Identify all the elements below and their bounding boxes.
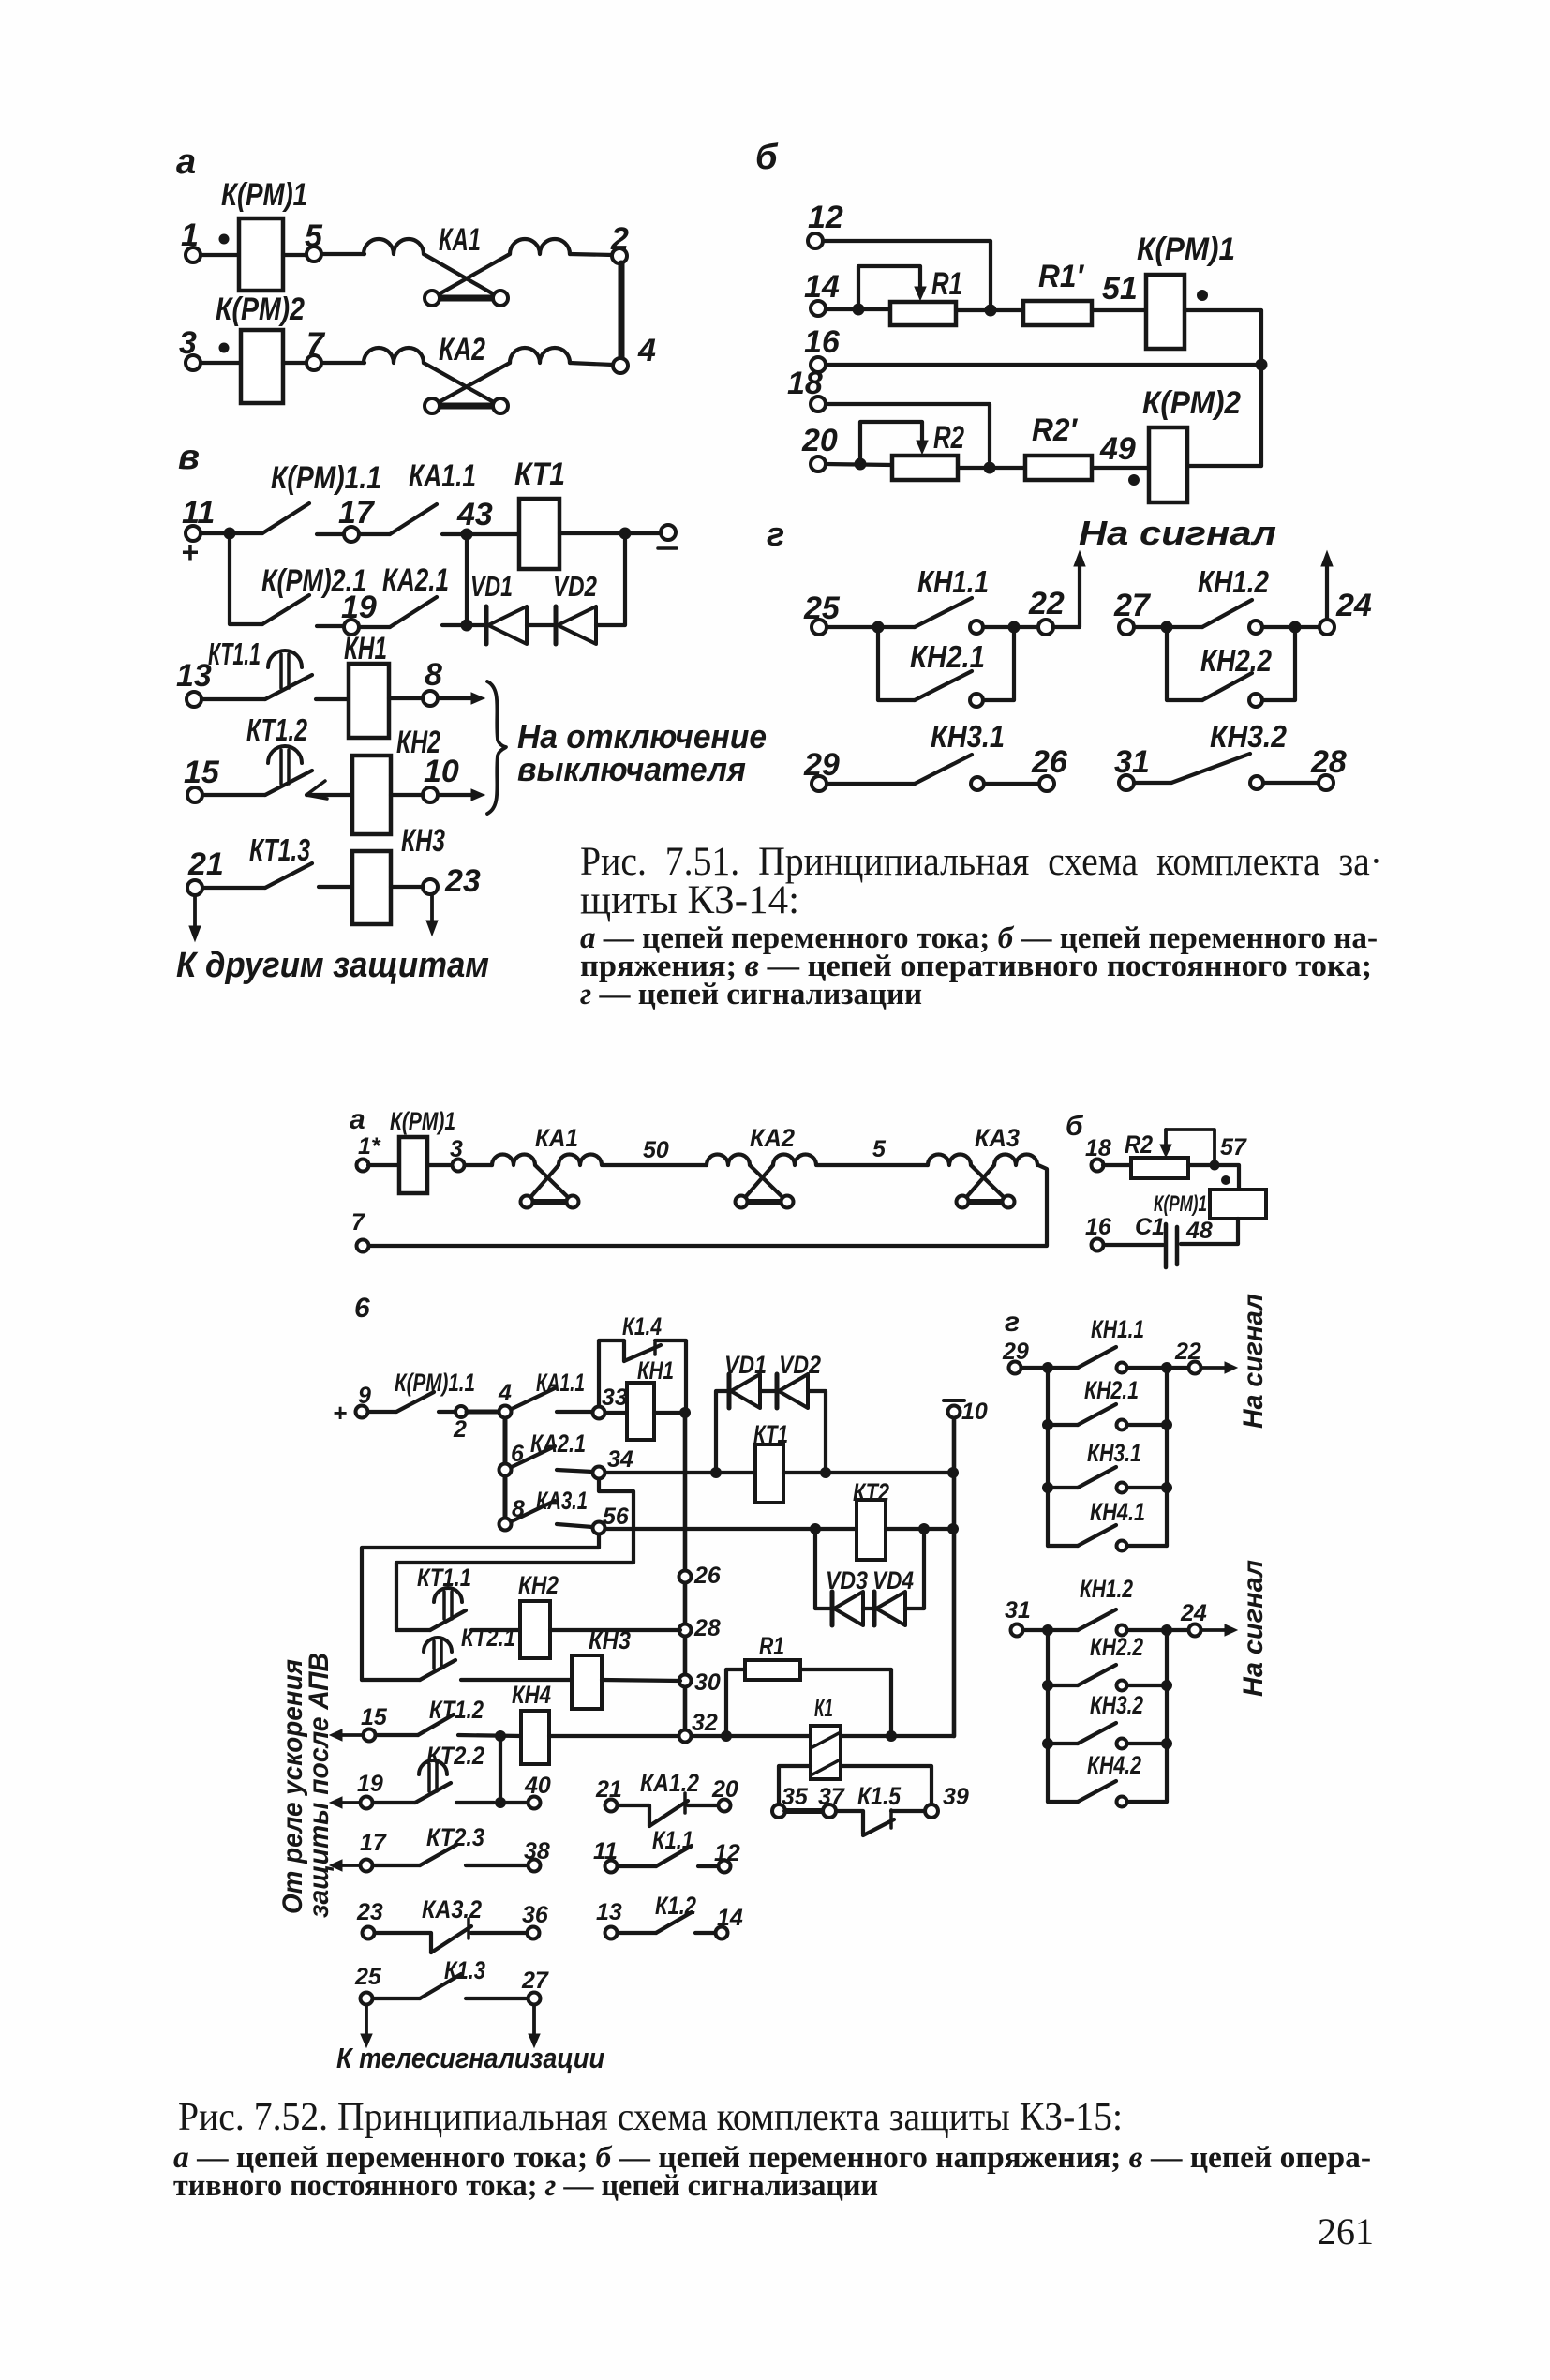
svg-text:19: 19 xyxy=(357,1771,383,1797)
capacitor C1 xyxy=(1166,1224,1177,1267)
svg-text:КН3.1: КН3.1 xyxy=(931,719,1005,754)
arrow up signal xyxy=(1053,551,1085,627)
diode loop KT1 xyxy=(716,1391,729,1473)
rheostat R2 label xyxy=(933,420,964,456)
terminal 10 xyxy=(944,1399,988,1425)
wire 56 line xyxy=(605,1527,857,1531)
contact KA1.1 (7.52) xyxy=(512,1388,555,1409)
time contact KT2.2 xyxy=(373,1760,451,1803)
terminal 27 xyxy=(1113,588,1152,635)
central bus xyxy=(683,1413,688,1729)
contact KN3.2 label xyxy=(1210,719,1288,754)
wire node 50 xyxy=(603,1137,707,1165)
svg-text:56: 56 xyxy=(603,1504,630,1530)
relay KN3 label (7.52) xyxy=(589,1626,631,1654)
contact KA3.1 label (7.52) xyxy=(536,1487,588,1515)
junction xyxy=(1042,1624,1053,1636)
contact KN2.1 label xyxy=(910,639,985,674)
svg-text:К(РМ)1: К(РМ)1 xyxy=(390,1107,455,1135)
terminal 18 xyxy=(1085,1135,1111,1172)
terminal 26 xyxy=(1031,744,1068,791)
terminal 16 xyxy=(1085,1214,1112,1251)
contact K1.2 xyxy=(618,1912,714,1933)
node 2 xyxy=(610,221,629,263)
wire xyxy=(826,307,890,311)
wire xyxy=(1181,1219,1238,1244)
contact K(PM)2.1 xyxy=(262,595,309,624)
svg-text:К1.5: К1.5 xyxy=(857,1782,902,1810)
node 2 xyxy=(439,1406,467,1443)
wire xyxy=(800,1669,891,1736)
node 4 xyxy=(498,1380,512,1418)
contact K1.4 label xyxy=(622,1312,662,1340)
svg-text:На сигнал: На сигнал xyxy=(1238,1294,1269,1429)
junction xyxy=(679,1407,691,1418)
contact KN4.1 label xyxy=(1090,1498,1145,1526)
wire xyxy=(1021,1366,1043,1370)
contact KN2.2 label xyxy=(1200,643,1273,678)
relay K(PM)1 label xyxy=(1137,232,1235,267)
svg-text:К1.2: К1.2 xyxy=(655,1892,696,1920)
relay KN2 label xyxy=(396,725,440,760)
relay K(PM)2 label xyxy=(1142,385,1241,421)
svg-text:КА3: КА3 xyxy=(975,1124,1020,1152)
wire xyxy=(202,886,265,890)
svg-text:К(РМ)2: К(РМ)2 xyxy=(1142,385,1241,421)
contact KA1.1 xyxy=(390,504,437,534)
contact KN1.1 xyxy=(915,598,983,634)
svg-text:КН3: КН3 xyxy=(401,823,445,859)
wire xyxy=(983,625,1038,629)
node 39 xyxy=(925,1784,969,1818)
wire KN4-KT2.2 tie xyxy=(499,1736,502,1803)
svg-text:КН4.2: КН4.2 xyxy=(1087,1751,1141,1779)
wire xyxy=(958,466,1025,470)
wire 34 line xyxy=(605,1471,755,1474)
terminal 23 (7.52) xyxy=(356,1899,383,1939)
svg-text:К(РМ)1.1: К(РМ)1.1 xyxy=(271,460,381,496)
junction xyxy=(810,1523,821,1534)
svg-text:выключателя: выключателя xyxy=(517,750,746,788)
relay coil K(PM)1 xyxy=(239,218,283,291)
contact KN1.2 xyxy=(1202,600,1262,634)
wire xyxy=(1188,1165,1239,1190)
svg-text:КА3.2: КА3.2 xyxy=(422,1895,482,1923)
rotated text zashchity posle APV xyxy=(304,1653,335,1918)
current transformer KA2 xyxy=(364,348,570,413)
svg-text:31: 31 xyxy=(1114,744,1150,780)
wire xyxy=(557,1410,592,1414)
time contact KT1.2 xyxy=(265,746,312,795)
contact K(PM)1.1 label xyxy=(271,460,381,496)
rheostat R1 wiper loop xyxy=(858,266,926,309)
svg-text:17: 17 xyxy=(338,495,376,531)
wire xyxy=(467,1410,499,1415)
wire xyxy=(202,793,265,797)
time contact KT1.1 (7.52) xyxy=(396,1588,466,1630)
caption 7.51 line2 xyxy=(580,878,799,922)
text K telesignalizatsii xyxy=(336,2042,604,2074)
svg-text:КА2: КА2 xyxy=(439,332,485,367)
node 17 xyxy=(317,495,390,542)
svg-text:КН2: КН2 xyxy=(518,1571,559,1599)
wire xyxy=(886,1527,953,1531)
svg-text:К(РМ)2: К(РМ)2 xyxy=(216,292,305,327)
relay KN1 label (7.52) xyxy=(637,1356,674,1385)
svg-text:КН2.1: КН2.1 xyxy=(1084,1376,1139,1404)
contact KN4.2 label xyxy=(1087,1751,1141,1779)
svg-text:R2′: R2′ xyxy=(1032,412,1079,448)
node 24 (7.52) xyxy=(1172,1600,1207,1637)
resistor R2' xyxy=(1025,456,1092,480)
svg-text:51: 51 xyxy=(1102,271,1138,307)
svg-text:10: 10 xyxy=(424,754,459,789)
node 56 xyxy=(593,1504,630,1534)
diode VD4 xyxy=(874,1592,905,1625)
svg-text:31: 31 xyxy=(1005,1597,1031,1624)
arrow down 27 xyxy=(529,2006,540,2047)
relay KN1 label xyxy=(344,631,387,666)
node 19 xyxy=(317,590,390,635)
junction xyxy=(495,1797,506,1808)
contact KT1.1 label xyxy=(208,636,261,671)
diode VD3 xyxy=(832,1592,863,1625)
time contact KT2.1 xyxy=(362,1638,455,1680)
junction xyxy=(984,462,996,474)
contact KT1.3 xyxy=(265,863,312,888)
rotated text Ot rele uskoreniya xyxy=(277,1659,308,1914)
scheme label g (7.52g) xyxy=(1005,1307,1020,1338)
relay KT1 label xyxy=(514,457,565,492)
terminal 25 xyxy=(803,591,841,635)
svg-text:6: 6 xyxy=(354,1293,370,1324)
relay coil K(PM)2 label xyxy=(216,292,305,327)
svg-text:48: 48 xyxy=(1185,1218,1213,1244)
svg-text:26: 26 xyxy=(1031,744,1068,780)
node 26 xyxy=(679,1563,722,1589)
svg-text:+: + xyxy=(181,535,199,569)
relay KN1 coil xyxy=(349,664,389,738)
node 27 xyxy=(521,1968,549,2005)
contact KN3.2 label (7.52) xyxy=(1090,1691,1143,1719)
node 49 xyxy=(1099,431,1136,467)
terminal 19 arrow xyxy=(330,1771,383,1809)
rheostat R2 wiper loop xyxy=(860,422,928,464)
relay K(PM)1 coil xyxy=(1146,275,1185,349)
svg-text:б: б xyxy=(1066,1111,1084,1142)
resistor R1' label xyxy=(1038,259,1085,294)
contact K1.5 label xyxy=(857,1782,902,1810)
wire xyxy=(827,625,915,629)
CT KA3 xyxy=(928,1155,1037,1208)
brace xyxy=(487,681,506,814)
diode VD4 label xyxy=(872,1566,914,1594)
wire xyxy=(1023,1628,1043,1632)
svg-text:К телесигнализации: К телесигнализации xyxy=(336,2042,604,2074)
wire xyxy=(316,697,349,701)
contact KT1.3 label xyxy=(249,832,310,867)
wire xyxy=(956,308,1023,312)
contact KN1.2 label xyxy=(1198,564,1270,599)
arrow up signal 2 xyxy=(1321,551,1333,620)
svg-text:КН2.2: КН2.2 xyxy=(1090,1633,1143,1661)
terminal 14 xyxy=(804,269,840,316)
svg-text:39: 39 xyxy=(943,1784,969,1810)
svg-text:14: 14 xyxy=(717,1905,743,1931)
wire bus 2-4 xyxy=(619,263,625,359)
svg-text:10: 10 xyxy=(961,1399,988,1425)
scheme label b (7.51b) xyxy=(755,138,779,177)
svg-text:13: 13 xyxy=(176,658,212,694)
text K drugim zashchitam xyxy=(176,946,489,985)
svg-text:КА1: КА1 xyxy=(535,1124,578,1152)
svg-text:5: 5 xyxy=(872,1136,887,1162)
scheme label v (7.51v) xyxy=(178,438,200,477)
contact KT2.1 label (7.52) xyxy=(461,1624,515,1652)
relay K1 label xyxy=(814,1694,833,1722)
terminal 15 xyxy=(184,755,220,802)
junction xyxy=(886,1730,897,1742)
svg-text:КН1.2: КН1.2 xyxy=(1080,1575,1133,1603)
svg-text:КТ1.1: КТ1.1 xyxy=(208,636,261,671)
svg-text:КА1.2: КА1.2 xyxy=(640,1769,699,1797)
svg-text:в: в xyxy=(178,438,200,477)
wire xyxy=(1127,1366,1162,1370)
contact KT2.3 label xyxy=(426,1823,484,1851)
contact KN4.1 xyxy=(1048,1525,1167,1551)
scheme label b (7.52b) xyxy=(1066,1111,1084,1142)
svg-text:15: 15 xyxy=(184,755,220,790)
wire arrow to trip xyxy=(438,693,484,704)
rheostat R2 xyxy=(892,456,958,480)
wire xyxy=(783,1471,953,1474)
wire xyxy=(605,1411,627,1415)
contact KN4.2 xyxy=(1048,1781,1167,1807)
svg-text:35: 35 xyxy=(782,1784,809,1810)
wire xyxy=(442,532,519,536)
contact K1.3 label xyxy=(444,1956,485,1984)
loop from 56 xyxy=(362,1534,599,1680)
terminal 11 (+) xyxy=(181,495,215,569)
svg-text:8: 8 xyxy=(425,657,442,693)
junction xyxy=(820,1467,959,1478)
svg-text:43: 43 xyxy=(456,497,493,532)
wire xyxy=(1103,1163,1131,1167)
terminal 16 xyxy=(804,324,841,372)
junction xyxy=(224,528,236,540)
contact KN3.2 xyxy=(1134,754,1319,789)
svg-text:КА2: КА2 xyxy=(750,1124,795,1152)
relay KN4 label xyxy=(512,1681,551,1709)
relay KT1 label (7.52) xyxy=(753,1420,788,1448)
contact KA3.2 xyxy=(375,1919,526,1953)
caption 7.52 sub2 xyxy=(173,2169,878,2203)
svg-text:49: 49 xyxy=(1099,431,1136,467)
svg-text:С1: С1 xyxy=(1135,1214,1165,1240)
contact KA1.1 label xyxy=(409,458,476,494)
node 12 xyxy=(714,1840,740,1873)
contact K(PM)1.1 label (7.52) xyxy=(395,1369,475,1397)
contact KA2.1 label xyxy=(382,562,449,598)
node 28 xyxy=(679,1615,721,1641)
wire xyxy=(467,623,486,627)
svg-text:К другим защитам: К другим защитам xyxy=(176,946,489,985)
polarity dot K(PM)2 xyxy=(219,343,230,353)
thick bus 4-6-8 xyxy=(503,1418,508,1519)
junction xyxy=(619,528,632,540)
svg-text:30: 30 xyxy=(694,1669,721,1696)
svg-text:12: 12 xyxy=(714,1840,740,1866)
svg-text:34: 34 xyxy=(607,1446,633,1473)
scheme label g (7.51g) xyxy=(767,515,784,553)
contact KA2.1 (7.52) xyxy=(512,1446,555,1467)
svg-text:2: 2 xyxy=(453,1416,467,1443)
node 8 terminal xyxy=(499,1496,526,1531)
svg-text:КН1: КН1 xyxy=(637,1356,674,1385)
relay coil K(PM)2 xyxy=(241,330,283,403)
arrow down from 23 xyxy=(426,894,438,936)
node 5 xyxy=(283,218,365,262)
svg-text:а: а xyxy=(176,142,196,182)
node 20 xyxy=(711,1776,738,1812)
time contact KT1.1 xyxy=(265,651,312,699)
svg-text:15: 15 xyxy=(361,1704,388,1730)
svg-text:КТ1.3: КТ1.3 xyxy=(249,832,310,867)
wire xyxy=(1127,1628,1162,1632)
wire xyxy=(841,1734,954,1738)
svg-text:г — цепей сигнализации: г — цепей сигнализации xyxy=(580,978,922,1011)
diode VD1 xyxy=(486,606,527,644)
node 48 label xyxy=(1185,1218,1213,1244)
relay KN3 coil (7.52) xyxy=(572,1655,602,1709)
node 23 xyxy=(391,863,481,899)
scheme label a (7.51a) xyxy=(176,142,196,182)
wire xyxy=(1187,464,1261,468)
wire xyxy=(559,531,661,535)
current transformer KA1 label xyxy=(439,222,481,258)
contact K1.3 xyxy=(373,1974,527,1998)
scheme label a (7.52a) xyxy=(350,1104,365,1135)
wire xyxy=(570,363,613,365)
junction xyxy=(872,621,885,634)
contact KA3.1 (7.52) xyxy=(512,1501,555,1521)
wire 16 xyxy=(826,363,1259,367)
contact KN3.1 (7.52) xyxy=(1042,1467,1172,1493)
terminal 1* xyxy=(357,1133,381,1172)
terminal 12 xyxy=(808,200,843,248)
relay KT1 coil (7.52) xyxy=(755,1444,783,1503)
small arrow xyxy=(306,781,327,799)
wire xyxy=(692,1734,811,1738)
wire xyxy=(527,623,556,627)
svg-text:12: 12 xyxy=(808,200,843,235)
node 22 (7.52) xyxy=(1172,1339,1201,1374)
caption 7.51 sub1 xyxy=(580,921,1378,955)
relay coil K(PM)1 (7.52a) xyxy=(399,1137,427,1193)
contact KT1.2 (7.52) xyxy=(376,1714,454,1735)
svg-text:К(РМ)1: К(РМ)1 xyxy=(1154,1191,1207,1217)
scheme label v (7.52v) xyxy=(354,1293,370,1324)
svg-text:г: г xyxy=(1005,1307,1020,1338)
contact K(PM)2.1 label xyxy=(261,563,366,599)
rotated text Na signal 1 xyxy=(1238,1294,1269,1429)
svg-text:32: 32 xyxy=(692,1710,718,1736)
wire xyxy=(1092,466,1149,470)
svg-text:КА3.1: КА3.1 xyxy=(536,1487,588,1515)
CT KA1 label xyxy=(535,1124,578,1152)
svg-text:КН4.1: КН4.1 xyxy=(1090,1498,1145,1526)
terminal 15 arrow xyxy=(330,1704,388,1742)
left bus 2 xyxy=(1046,1630,1050,1802)
svg-text:37: 37 xyxy=(818,1784,845,1810)
wire 43 down xyxy=(465,534,469,625)
CT KA3 label xyxy=(975,1124,1020,1152)
left bus 1 xyxy=(1046,1368,1050,1546)
resistor R2' label xyxy=(1032,412,1079,448)
polarity dot xyxy=(1128,474,1140,486)
terminal 9 (+) xyxy=(333,1383,371,1427)
svg-text:23: 23 xyxy=(356,1899,383,1925)
rheostat R2 (7.52b) xyxy=(1131,1158,1188,1178)
svg-text:R2: R2 xyxy=(933,420,964,456)
arrow 22 xyxy=(1201,1362,1237,1373)
svg-text:R2: R2 xyxy=(1125,1130,1153,1159)
diode VD1 label xyxy=(470,570,513,603)
contact KT2.3 xyxy=(373,1845,456,1865)
svg-text:На сигнал: На сигнал xyxy=(1079,514,1276,552)
relay K1 coil xyxy=(811,1726,841,1779)
polarity dot xyxy=(1197,290,1208,301)
junction xyxy=(1008,621,1021,634)
terminal 20 xyxy=(801,423,838,472)
node 10 xyxy=(391,754,459,802)
terminal 31 (7.52) xyxy=(1005,1597,1031,1637)
svg-text:38: 38 xyxy=(524,1838,550,1864)
CT KA2 label xyxy=(750,1124,795,1152)
terminal 13 xyxy=(176,658,212,707)
contact KN1.1 label xyxy=(917,564,989,599)
contact K1.1 xyxy=(618,1846,717,1866)
current transformer KA2 label xyxy=(439,332,485,367)
caption 7.51 line1 xyxy=(580,840,1382,884)
wire xyxy=(201,697,265,701)
node 40 xyxy=(500,1773,551,1809)
svg-text:VD2: VD2 xyxy=(779,1351,821,1379)
svg-text:КН2.2: КН2.2 xyxy=(1200,643,1273,678)
svg-text:VD1: VD1 xyxy=(470,570,513,603)
branch KN2.2 xyxy=(1167,627,1295,707)
svg-text:33: 33 xyxy=(602,1385,628,1411)
contact KN2.1 (7.52) xyxy=(1042,1404,1172,1430)
svg-text:1*: 1* xyxy=(358,1133,381,1160)
svg-text:50: 50 xyxy=(643,1137,669,1163)
svg-text:36: 36 xyxy=(522,1902,549,1928)
svg-text:22: 22 xyxy=(1174,1339,1201,1365)
resistor R1' xyxy=(1023,301,1092,325)
terminal 21 xyxy=(187,846,224,895)
node 6 xyxy=(499,1441,526,1476)
wiper arrow loop xyxy=(1160,1130,1215,1160)
terminal 1 xyxy=(181,217,201,262)
svg-text:КТ2.1: КТ2.1 xyxy=(461,1624,515,1652)
contact KN3.1 xyxy=(827,755,1039,790)
node 3 xyxy=(427,1136,492,1172)
junction 57 xyxy=(1210,1134,1247,1171)
svg-text:К1.4: К1.4 xyxy=(622,1312,662,1340)
diode VD3 label xyxy=(826,1566,868,1594)
svg-text:20: 20 xyxy=(711,1776,738,1803)
svg-text:КН1: КН1 xyxy=(344,631,387,666)
